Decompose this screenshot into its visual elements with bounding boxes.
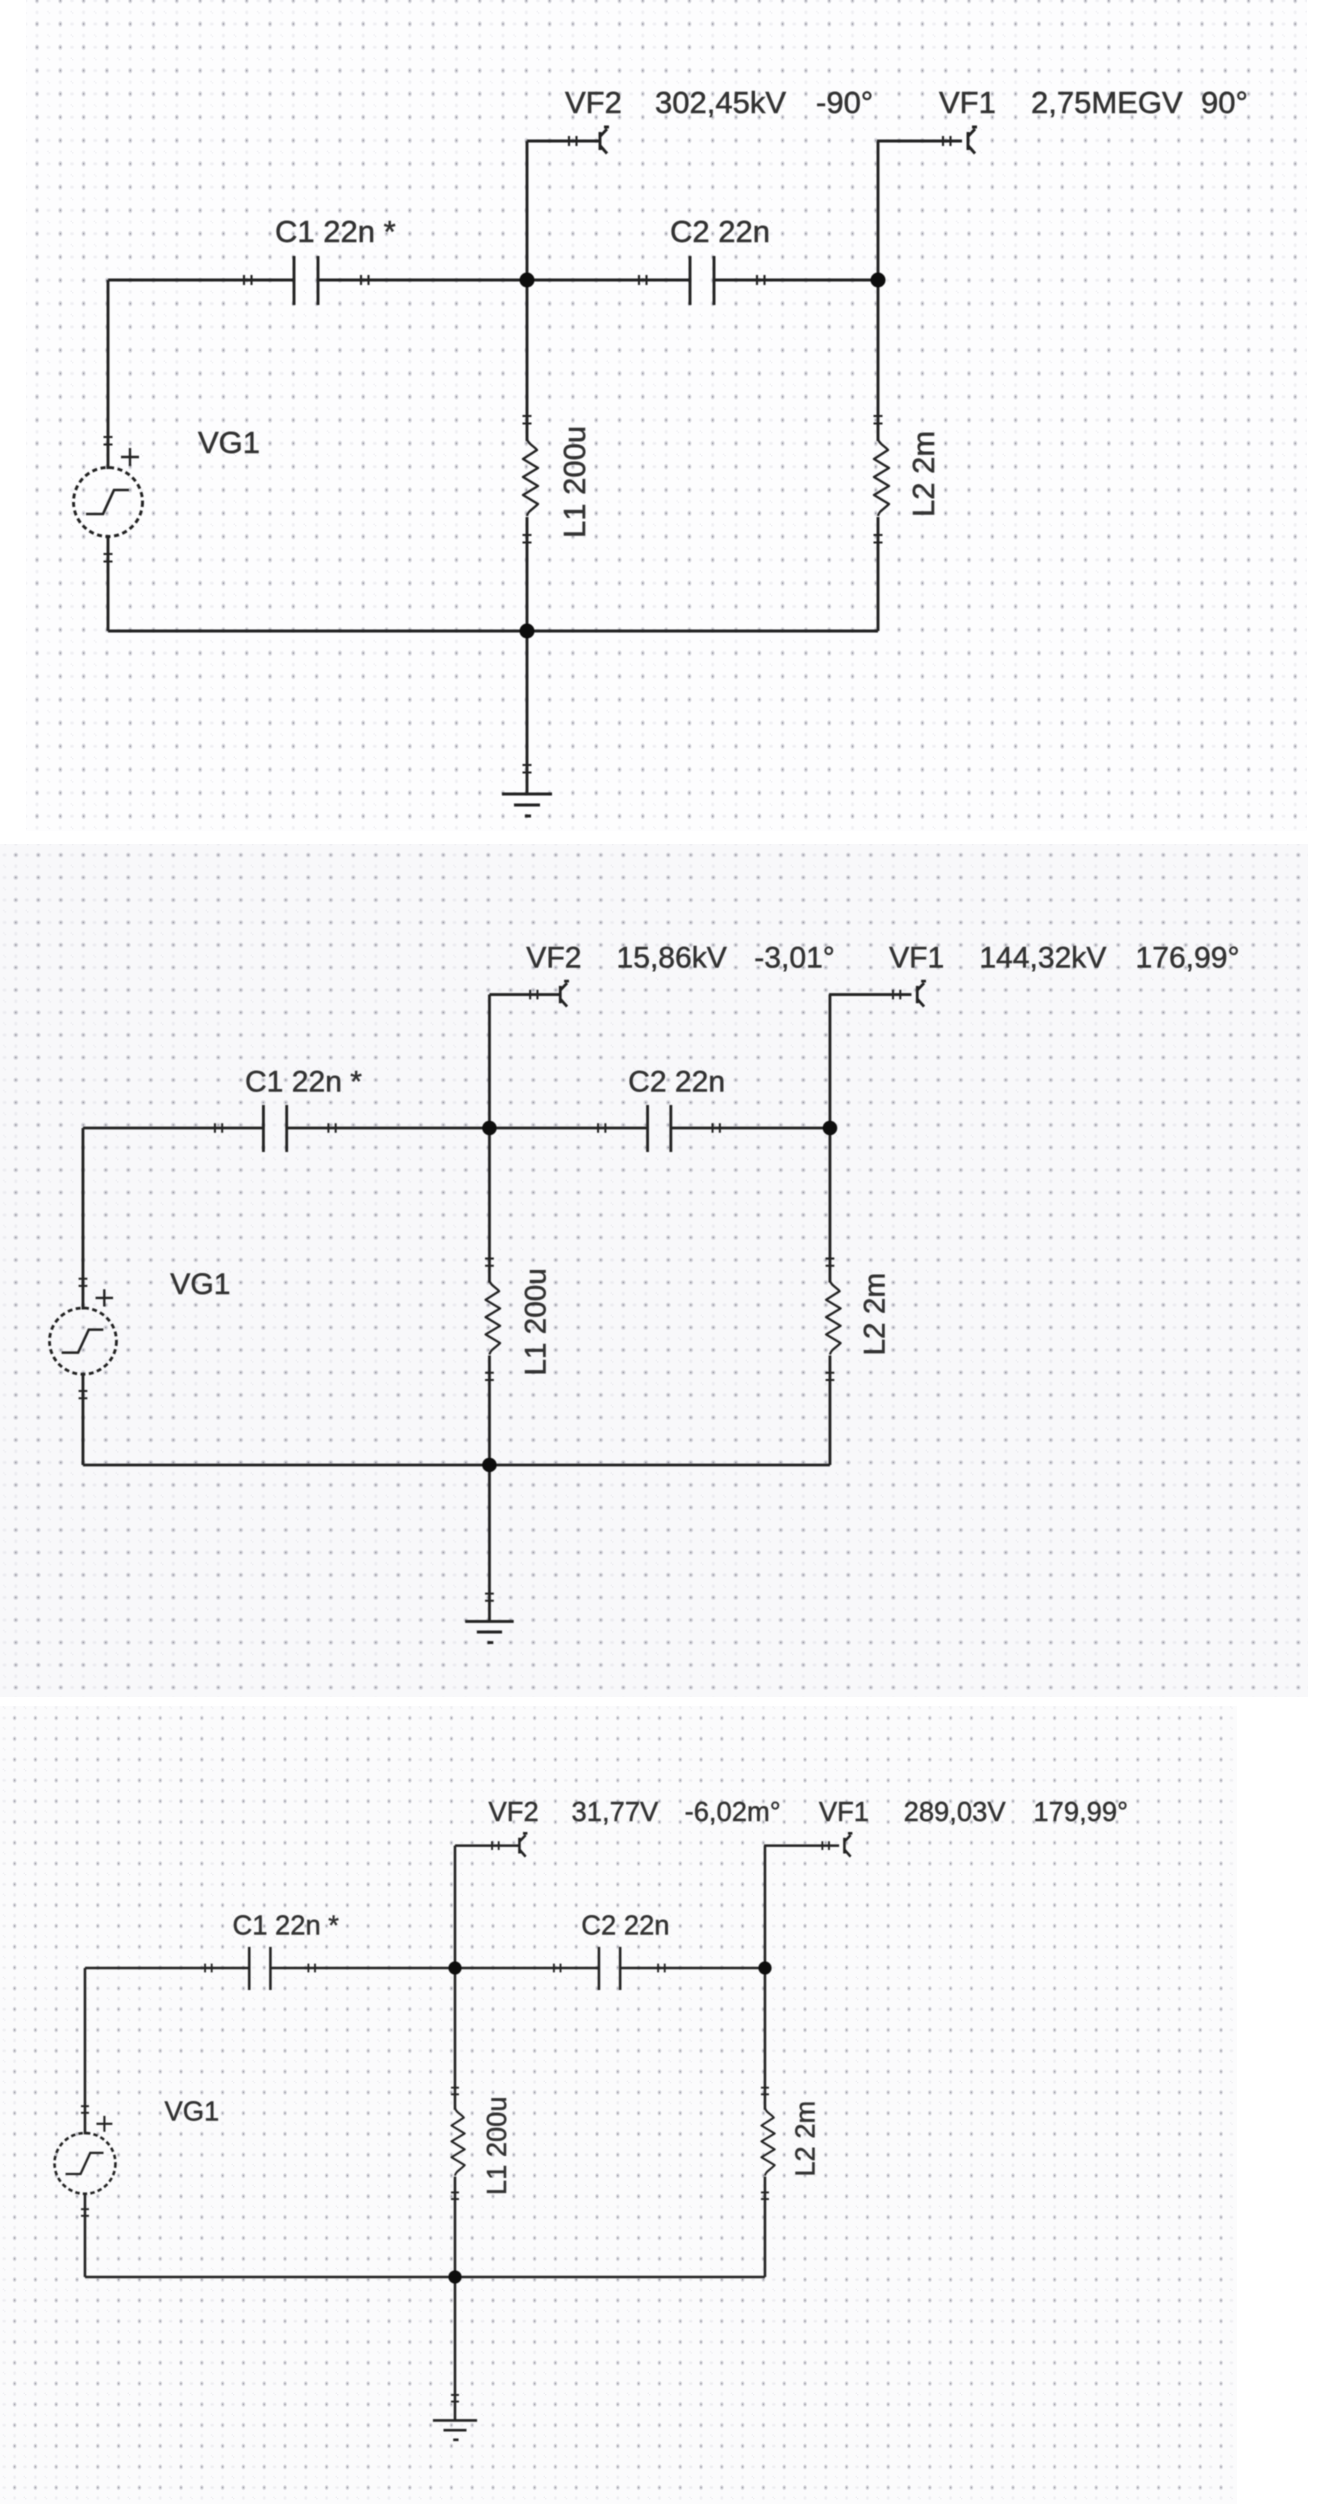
svg-text:289,03V: 289,03V: [904, 1796, 1007, 1827]
svg-text:2,75MEGV: 2,75MEGV: [1031, 85, 1183, 120]
svg-text:302,45kV: 302,45kV: [655, 85, 786, 120]
svg-text:144,32kV: 144,32kV: [979, 942, 1106, 975]
svg-text:15,86kV: 15,86kV: [617, 942, 727, 975]
svg-text:179,99°: 179,99°: [1033, 1796, 1128, 1827]
svg-text:90°: 90°: [1201, 85, 1248, 120]
svg-text:-3,01°: -3,01°: [754, 942, 835, 975]
svg-text:-90°: -90°: [816, 85, 873, 120]
svg-text:176,99°: 176,99°: [1136, 942, 1240, 975]
svg-text:-6,02m°: -6,02m°: [685, 1796, 781, 1827]
svg-text:31,77V: 31,77V: [572, 1796, 660, 1827]
